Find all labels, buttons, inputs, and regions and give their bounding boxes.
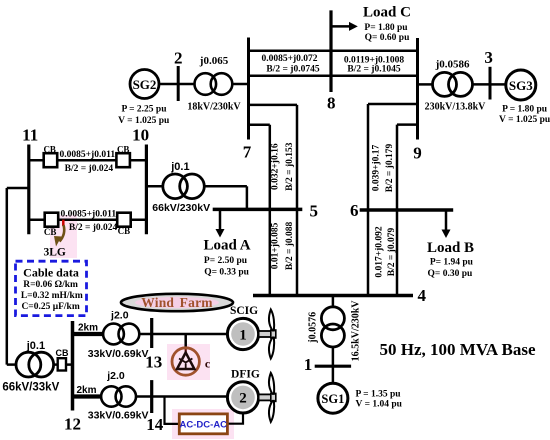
- transmission line 7-8 (upper): [247, 51, 418, 75]
- bus 3: [484, 48, 493, 100]
- circuit breaker CB (line2 left): [44, 213, 58, 237]
- svg-text:16.5kV/230kV: 16.5kV/230kV: [351, 300, 362, 362]
- bus 5: [213, 202, 318, 221]
- bus 6: [350, 201, 453, 220]
- line 9-6 circuit 1 (stub + vertical at x368): [368, 104, 418, 296]
- capacitor bank c: [172, 334, 211, 375]
- cable 12-13 2km: [73, 323, 104, 335]
- bus 11: [22, 125, 38, 234]
- svg-text:4: 4: [417, 286, 426, 305]
- 3LG fault highlight: [50, 215, 77, 258]
- load A: [203, 209, 250, 277]
- svg-text:0.0085+j0.011: 0.0085+j0.011: [61, 209, 117, 219]
- svg-text:P= 1.80 pu: P= 1.80 pu: [364, 23, 408, 33]
- transformer T2 j0.065: [187, 55, 241, 112]
- generator SG2: [118, 70, 170, 126]
- line 7-5 labels: [271, 142, 296, 191]
- wire T10 to bus 5: [204, 186, 247, 209]
- cable 12-14 2km: [73, 385, 102, 397]
- svg-text:Q= 0.30 pu: Q= 0.30 pu: [428, 269, 473, 279]
- transformer T13 j2.0: [88, 309, 149, 360]
- svg-text:Q= 0.60 pu: Q= 0.60 pu: [365, 33, 410, 43]
- svg-text:Wind Farm: Wind Farm: [141, 295, 213, 310]
- svg-text:3: 3: [484, 48, 493, 67]
- svg-text:V = 1.04 pu: V = 1.04 pu: [356, 399, 403, 409]
- transmission line 8-9 (upper pair, second conductor): [247, 56, 418, 76]
- svg-text:0.0085+j0.011: 0.0085+j0.011: [60, 150, 116, 160]
- bus 10: [132, 125, 149, 234]
- capacitor bank highlight: [167, 344, 210, 380]
- transformer T12 j0.1 66kV/33kV: [2, 340, 59, 393]
- svg-text:Cable data: Cable data: [23, 266, 79, 280]
- svg-text:50 Hz, 100 MVA Base: 50 Hz, 100 MVA Base: [380, 340, 536, 359]
- wire T3 to bus 3: [473, 83, 491, 86]
- load C: [331, 4, 411, 43]
- svg-text:2km: 2km: [78, 323, 98, 334]
- line 9-6 labels: [371, 144, 395, 193]
- svg-text:j0.0586: j0.0586: [435, 59, 470, 71]
- circuit breaker CB (at bus 12): [56, 348, 69, 370]
- svg-text:B/2 = j0.088: B/2 = j0.088: [285, 221, 295, 270]
- svg-text:B/2 = j0.153: B/2 = j0.153: [285, 142, 295, 191]
- svg-text:0.039+j0.17: 0.039+j0.17: [371, 144, 381, 191]
- wire bus3 to SG3: [490, 83, 506, 86]
- wire bus4 to T1: [332, 296, 335, 309]
- transformer T1 j0.0576: [308, 300, 362, 362]
- svg-text:18kV/230kV: 18kV/230kV: [187, 101, 241, 112]
- svg-text:P = 1.80 pu: P = 1.80 pu: [502, 105, 548, 115]
- svg-text:33kV/0.69kV: 33kV/0.69kV: [88, 348, 149, 360]
- wire T1 to bus 1 and SG1: [332, 346, 335, 384]
- line 6-4 labels: [375, 226, 397, 278]
- bus 7: [243, 38, 252, 162]
- svg-text:B/2 = j0.1045: B/2 = j0.1045: [347, 65, 400, 75]
- svg-text:0.0085+j0.072: 0.0085+j0.072: [261, 54, 317, 64]
- svg-text:SG3: SG3: [509, 78, 533, 93]
- svg-text:DFIG: DFIG: [231, 368, 260, 380]
- svg-text:P= 2.50 pu: P= 2.50 pu: [204, 256, 248, 266]
- bus 8: [327, 10, 336, 112]
- svg-text:33kV/0.69kV: 33kV/0.69kV: [88, 409, 149, 421]
- svg-text:Load A: Load A: [203, 238, 250, 254]
- generator SG3: [499, 70, 550, 125]
- converter AC-DC-AC: [165, 397, 244, 434]
- bus 9: [413, 38, 422, 162]
- wind turbine SCIG: [227, 305, 275, 359]
- svg-text:P = 2.25 pu: P = 2.25 pu: [121, 104, 167, 114]
- svg-text:B/2 = j0.024: B/2 = j0.024: [65, 164, 114, 174]
- svg-text:j0.0576: j0.0576: [308, 312, 319, 344]
- svg-text:P= 1.94 pu: P= 1.94 pu: [430, 257, 474, 267]
- svg-text:12: 12: [64, 414, 81, 433]
- line 5-4 labels: [271, 221, 296, 270]
- svg-text:SG1: SG1: [321, 392, 344, 406]
- wire bus11 to T12 (left feeder): [7, 188, 29, 365]
- 3LG fault: [44, 220, 66, 259]
- svg-text:c: c: [205, 357, 211, 371]
- svg-text:B/2 = j0.079: B/2 = j0.079: [387, 228, 397, 277]
- line 11-10 circuit 1: [29, 150, 147, 174]
- wire bus9 to T3: [418, 83, 434, 86]
- svg-text:14: 14: [146, 415, 164, 434]
- svg-text:7: 7: [243, 143, 252, 162]
- svg-text:CB: CB: [118, 226, 131, 236]
- transformer T10 j0.1 66kV/230kV: [146, 161, 210, 214]
- svg-text:0.01+j0.085: 0.01+j0.085: [271, 222, 281, 269]
- svg-text:SCIG: SCIG: [230, 305, 258, 317]
- svg-text:6: 6: [350, 201, 359, 220]
- bus 12: [64, 321, 81, 433]
- svg-text:j2.0: j2.0: [110, 309, 129, 321]
- svg-text:B/2 = j0.0745: B/2 = j0.0745: [266, 65, 319, 75]
- svg-text:0.017+j0.092: 0.017+j0.092: [375, 226, 385, 278]
- line 9-6 circuit 2 (stub + vertical at x397): [397, 125, 418, 296]
- wire SG2 to T2: [159, 83, 195, 86]
- svg-text:66kV/33kV: 66kV/33kV: [2, 381, 59, 393]
- svg-text:11: 11: [22, 125, 38, 144]
- transformer T14 j2.0: [88, 370, 149, 421]
- svg-text:10: 10: [132, 125, 149, 144]
- transformer T3 j0.0586: [425, 59, 487, 113]
- wire T14 to bus14 to DFIG: [136, 395, 228, 398]
- svg-text:Q= 0.33 pu: Q= 0.33 pu: [204, 268, 249, 278]
- bus 14: [146, 380, 164, 434]
- svg-text:R=0.06 Ω/km: R=0.06 Ω/km: [23, 280, 78, 290]
- wind turbine DFIG: [227, 368, 275, 422]
- line 7-5 circuit 2 (stub + vertical at x270): [249, 125, 270, 296]
- wire T13 to bus13 to SCIG: [139, 333, 227, 336]
- wire T12 to CB: [54, 363, 58, 366]
- circuit breaker CB (line2 right): [117, 213, 131, 237]
- bus 1: [304, 355, 351, 374]
- svg-text:B/2 = j0.179: B/2 = j0.179: [385, 144, 395, 193]
- wire T2 to bus 7: [232, 83, 248, 86]
- load B: [427, 210, 474, 279]
- cable data box: [16, 261, 87, 315]
- svg-text:j2.0: j2.0: [106, 370, 125, 382]
- generator SG1: [318, 383, 403, 413]
- converter highlight: [172, 409, 234, 439]
- svg-text:L=0.32 mH/km: L=0.32 mH/km: [21, 291, 83, 301]
- svg-text:230kV/13.8kV: 230kV/13.8kV: [425, 102, 487, 113]
- bus 4: [253, 286, 426, 305]
- svg-text:CB: CB: [117, 144, 130, 154]
- svg-text:8: 8: [327, 93, 336, 112]
- svg-text:3LG: 3LG: [44, 246, 66, 258]
- svg-text:P = 1.35 pu: P = 1.35 pu: [356, 389, 402, 399]
- svg-text:2: 2: [174, 48, 183, 67]
- svg-text:CB: CB: [44, 227, 57, 237]
- svg-text:j0.1: j0.1: [26, 340, 45, 352]
- line 7-5 circuit 1 (stub + vertical at x297): [249, 105, 298, 296]
- svg-text:AC-DC-AC: AC-DC-AC: [180, 420, 228, 431]
- bus 13: [145, 318, 162, 372]
- svg-text:5: 5: [309, 202, 318, 221]
- svg-text:j0.1: j0.1: [170, 161, 189, 173]
- svg-text:Load C: Load C: [363, 4, 411, 20]
- svg-text:j0.065: j0.065: [199, 55, 229, 67]
- svg-text:1: 1: [304, 355, 313, 374]
- svg-text:2: 2: [239, 391, 247, 407]
- circuit breaker CB (line1 left): [43, 144, 57, 167]
- wind farm ellipse: [121, 294, 233, 311]
- svg-text:1: 1: [239, 327, 247, 343]
- svg-text:2km: 2km: [76, 385, 96, 396]
- wire CB to bus 12: [66, 363, 73, 366]
- svg-text:SG2: SG2: [133, 77, 157, 92]
- line 11-10 circuit 2: [29, 209, 147, 233]
- svg-text:B/2 = j0.024: B/2 = j0.024: [69, 223, 118, 233]
- bus 2: [174, 48, 183, 101]
- svg-text:Load B: Load B: [427, 240, 474, 256]
- svg-text:0.032+j0.16: 0.032+j0.16: [271, 143, 281, 190]
- svg-text:CB: CB: [56, 348, 69, 358]
- svg-text:CB: CB: [43, 144, 56, 154]
- svg-text:13: 13: [145, 353, 162, 372]
- svg-text:66kV/230kV: 66kV/230kV: [152, 202, 210, 214]
- svg-text:V = 1.025 pu: V = 1.025 pu: [499, 115, 550, 125]
- svg-text:C=0.25 μF/km: C=0.25 μF/km: [21, 302, 79, 312]
- circuit breaker CB (line1 right): [116, 144, 129, 167]
- svg-text:9: 9: [413, 143, 422, 162]
